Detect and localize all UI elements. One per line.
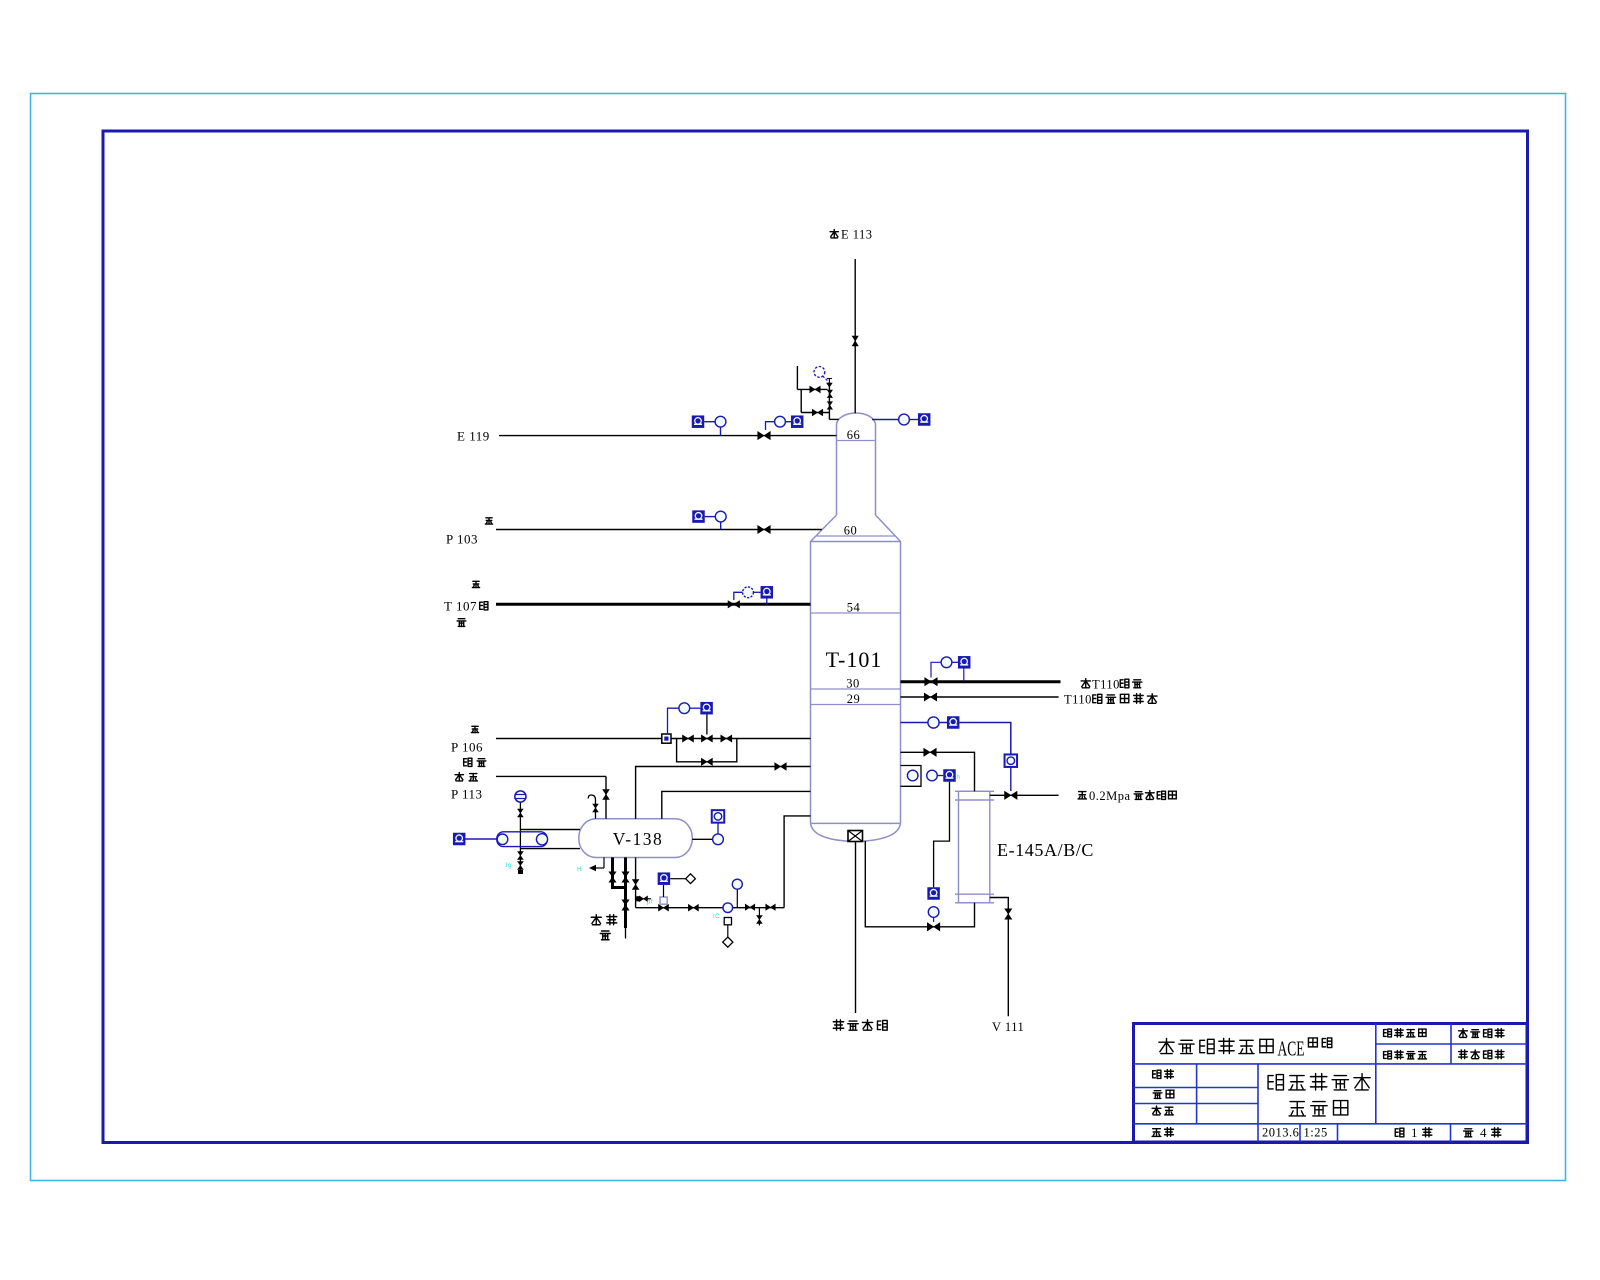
valve small on right leg 2 [827, 402, 832, 410]
column tray line 30 [811, 688, 901, 690]
valve bottom outlet left [609, 872, 616, 883]
svg-text:1:25: 1:25 [1304, 1126, 1328, 1140]
instrument display square top right [918, 413, 931, 426]
label T110 2 [1064, 693, 1092, 707]
svg-text:V 111: V 111 [992, 1020, 1024, 1034]
pipe V-138 bottom outlet left (thick) [611, 857, 614, 887]
column tray line 29 [811, 704, 901, 706]
signal stem V-138 circle up [717, 823, 719, 834]
label hanzi zhi (to) [485, 518, 492, 524]
svg-text:V-138: V-138 [613, 829, 664, 849]
cell hanzi gong (total) [1464, 1129, 1473, 1137]
exchanger E-145A/B/C shell [955, 791, 994, 903]
pipe reflux left leg [800, 389, 802, 412]
control valve on reflux right leg [826, 379, 833, 388]
label hanzi fang-zhi (drain to) [455, 773, 477, 781]
valve manifold stub [640, 896, 648, 902]
valve manifold 3 [745, 904, 755, 910]
svg-text:T 107: T 107 [444, 599, 477, 614]
pipe P-106 bypass [677, 739, 737, 762]
stub cap [636, 896, 640, 901]
tray label 29 [847, 692, 861, 706]
flow element FE on P-106 line [662, 734, 671, 743]
V-138 bottom-left drain arrow [589, 857, 604, 871]
cell hanzi she-ji (designer) [1153, 1070, 1174, 1079]
cell text sheet 4 [1480, 1125, 1487, 1140]
level pot circle 1 [497, 834, 508, 845]
instrument display square E-119 [692, 415, 705, 428]
column tray line 54 [811, 612, 901, 614]
svg-text:ACE: ACE [1278, 1037, 1305, 1061]
instrument FIC display square P-106 [700, 702, 713, 715]
cell text 2013.6 [1262, 1126, 1299, 1140]
instrument LIC display square [927, 887, 940, 900]
valve manifold 2 [688, 904, 698, 911]
label P 103 [446, 532, 478, 547]
svg-text:30: 30 [846, 677, 860, 691]
signal LIC chain [934, 782, 950, 887]
valve reflux lower [812, 409, 823, 416]
instrument circle V-138 right [713, 834, 724, 845]
label hanzi zheng-qi-guan-wang [1134, 791, 1176, 800]
vessel V-138 shell [579, 819, 693, 858]
signal link T-107 circle-square [753, 591, 760, 593]
cell hanzi she-ji-xiang-mu [1384, 1029, 1426, 1037]
valve reflux upper [810, 386, 821, 393]
pipe from P-103 [496, 529, 822, 531]
pipe V-138 right to LI circle [692, 838, 712, 840]
instrument circle P-103 [715, 511, 726, 522]
pipe bottom manifold [636, 907, 785, 909]
svg-text:h: h [957, 775, 961, 781]
goose-neck vent on V-138 top [588, 795, 595, 819]
tray label 54 [847, 601, 861, 615]
interlock diamond 1 [686, 874, 696, 884]
svg-text:4: 4 [1480, 1125, 1487, 1140]
column tray line 66 [837, 440, 876, 442]
signal stem circle-square-diamond [727, 925, 729, 937]
instrument display square T-107 [761, 586, 774, 599]
pipe to P-113 [496, 775, 606, 777]
pipe from T-107 reboiler (thick) [496, 603, 811, 606]
valve on centre drop [632, 880, 639, 890]
pipe E-119 feed [499, 435, 837, 437]
interlock diamond 2 [723, 937, 733, 947]
valve on goose-neck [593, 804, 599, 812]
instrument circle LIC [928, 907, 939, 918]
valve manifold drain [757, 916, 763, 924]
pipe column bottoms [865, 841, 974, 927]
pipe reflux lower run [801, 412, 829, 414]
svg-text:lg: lg [506, 862, 512, 869]
cell hanzi zhang 2 [1492, 1128, 1501, 1137]
instrument display square PT [947, 716, 960, 729]
svg-text:pf: pf [647, 900, 653, 906]
title block grid lines [1134, 1024, 1528, 1143]
title text ACE [1278, 1037, 1305, 1061]
cell hanzi chu-bu-she-ji [1459, 1050, 1504, 1059]
svg-text:T110: T110 [1092, 678, 1120, 692]
cyan mark pf [647, 900, 653, 906]
label V 111 [992, 1020, 1024, 1034]
label hanzi zhi steam [1078, 792, 1086, 799]
square below manifold circle [724, 918, 731, 925]
column T-101 shell [811, 413, 901, 842]
signal elbow E-119 controller to valve [766, 422, 775, 430]
valve on reboiler feed [924, 748, 937, 756]
instrument square V-138 right [712, 810, 725, 823]
valve on reflux return [924, 693, 937, 701]
label T110 [1092, 678, 1120, 692]
signal link E-119 sq-circle [704, 421, 715, 423]
signal link T-110 circle-square [952, 661, 958, 663]
svg-text:T110: T110 [1064, 693, 1092, 707]
stem P-106 control valve [706, 715, 708, 735]
svg-text:P 106: P 106 [451, 740, 483, 755]
pipe residue tail [625, 928, 627, 939]
valve manifold control [659, 904, 669, 911]
signal link FI circle-FIC square [690, 707, 701, 709]
instrument circle FI P-106 [679, 703, 690, 714]
signal line to PIC [959, 723, 1010, 755]
tray label 30 [846, 677, 860, 691]
signal link PT circle-square [939, 722, 947, 724]
label hanzi fang-can (residue) [591, 915, 617, 925]
tray label 66 [847, 428, 861, 442]
pipe reflux right leg [828, 382, 830, 419]
instrument circle PT [928, 717, 939, 728]
signal stem T-107 square to pipe [766, 599, 768, 605]
cell hanzi zhi-tu (drawn) [1153, 1090, 1174, 1098]
valve on T-107 line [728, 601, 740, 608]
pipe from P-106 [496, 738, 811, 740]
label hanzi ce-duan (side section) [464, 758, 486, 766]
cyan mark level [957, 775, 961, 781]
pipe V-138 second top line to column [662, 791, 811, 818]
svg-text:66: 66 [847, 428, 861, 442]
column tray line 60 [816, 535, 897, 537]
pipe manifold drain stub [758, 908, 760, 926]
instrument PIC square [1005, 754, 1018, 767]
signal stem PIC to valve [1010, 767, 1012, 791]
svg-text:54: 54 [847, 601, 861, 615]
cell hanzi zhang (sheet) [1423, 1128, 1432, 1137]
valve manifold 4 [766, 904, 776, 910]
pressure controller PC circle (dashed) [814, 367, 829, 382]
pipe P-113 drop to V-138 [605, 776, 607, 818]
signal pipe PT tap [901, 722, 929, 724]
label P 113 [451, 787, 483, 802]
tray label 60 [844, 524, 858, 538]
pipe bottom outlet elbow (thick) [611, 886, 626, 889]
cyan mark IC [713, 914, 720, 920]
cell text 1:25 [1304, 1126, 1328, 1140]
valve on P-113 drop [603, 790, 610, 800]
valve bottom outlet right [622, 872, 629, 883]
signal link P-103 sq-circle [705, 516, 716, 518]
svg-text:IC: IC [713, 914, 720, 920]
instrument circle E-119 controller [775, 416, 786, 427]
signal stem T-110 square [963, 669, 965, 682]
svg-text:E 119: E 119 [457, 429, 490, 444]
level gauge top instrument [515, 791, 526, 802]
valve P-106 bypass [701, 758, 712, 765]
title hanzi da-qing-shi-fan-xue-yuan [1159, 1038, 1273, 1053]
title block outer frame [1134, 1024, 1528, 1143]
pipe steam line [990, 794, 1059, 796]
pipe T-110 kettle reflux return [901, 696, 1059, 698]
svg-text:60: 60 [844, 524, 858, 538]
signal stem E-119 circle to pipe [720, 427, 722, 436]
cell hanzi di (no.) [1395, 1128, 1404, 1137]
level bridle vertical [519, 791, 521, 873]
svg-text:E 113: E 113 [841, 228, 873, 242]
valve on T-110 line [925, 678, 938, 686]
level pot circle 2 [536, 834, 547, 845]
signal FI circle to FE [668, 708, 679, 734]
svg-text:1: 1 [1411, 1125, 1418, 1140]
cell hanzi jiao-dui (checked) [1152, 1106, 1173, 1115]
instrument circle PI top [899, 414, 910, 425]
column label T-101 [826, 647, 883, 672]
label hanzi san-xiao-zheng-fa [833, 1020, 887, 1030]
instrument display square P-103 [692, 510, 705, 522]
pipe manifold stub left [636, 898, 651, 900]
signal link level circle-square [937, 775, 943, 777]
cyan mark H [577, 866, 582, 873]
pipe V-138 centre bottom drop [635, 857, 637, 907]
cell hanzi shen-he (approved) [1152, 1128, 1173, 1137]
control valve on steam line [1005, 791, 1018, 799]
svg-text:T-101: T-101 [826, 647, 883, 672]
instrument display square T-110 [958, 656, 971, 669]
level tap bracket [901, 766, 922, 787]
level tap upper [520, 829, 580, 831]
instrument display square LT [453, 833, 466, 846]
label hanzi fu (kettle) [457, 619, 466, 627]
column bottom nozzle box with X [848, 831, 863, 842]
instrument circle E-119 [715, 416, 726, 427]
cell text sheet 1 [1411, 1125, 1418, 1140]
instrument circle PI manifold [732, 879, 742, 889]
signal riser T-110 valve [931, 662, 941, 677]
bridle drain cap [518, 870, 523, 874]
label hanzi ta (tower) [480, 602, 488, 610]
svg-text:P 113: P 113 [451, 787, 483, 802]
instrument display square level [943, 769, 956, 782]
valve bridle lower [518, 852, 524, 860]
label 0.2Mpa [1089, 789, 1131, 803]
title hanzi tuan-dui [1308, 1038, 1331, 1048]
signal stem positioner [663, 885, 665, 897]
instrument display square manifold [658, 872, 671, 885]
label E 113 [841, 228, 873, 242]
valve on P-103 line [758, 526, 771, 534]
label E 119 [457, 429, 490, 444]
valve P-106 block 1 [683, 735, 694, 742]
pipe to T-110 tower section (thick) [901, 680, 1061, 683]
svg-text:29: 29 [847, 692, 861, 706]
control valve positioner square (lavender) [660, 897, 667, 904]
label hanzi qu (go to E-113) [830, 230, 838, 238]
svg-text:0.2Mpa: 0.2Mpa [1089, 789, 1131, 803]
valve on overhead line [852, 336, 858, 346]
instrument display square E-119 second [791, 415, 804, 428]
valve on V-111 line [1005, 909, 1012, 920]
instrument circle T-107 (dashed) [743, 587, 754, 598]
label hanzi qu T110 [1081, 679, 1090, 688]
drawing title hanzi zhi-dian-tu [1289, 1101, 1348, 1116]
signal link manifold square-diamond [670, 878, 686, 880]
instrument circle level 1 [907, 770, 918, 781]
signal stem LIC circle to valve [933, 917, 935, 922]
control valve on bottoms line [927, 923, 940, 931]
pipe reflux tail to dome [829, 418, 838, 420]
pipe reflux stub up [796, 366, 798, 389]
pipe reflux upper run [797, 388, 827, 390]
exchanger label E-145A/B/C [997, 840, 1094, 860]
pipe column bottom to evaporator [855, 842, 857, 1014]
signal link LT square [465, 838, 497, 840]
instrument circle on manifold [723, 903, 733, 913]
signal stem P-103 circle to pipe [720, 522, 722, 530]
vessel label V-138 [613, 829, 664, 849]
drawing title hanzi jing-zhi-gong-duan-kong [1268, 1074, 1370, 1090]
instrument circle T-110 [941, 657, 952, 668]
valve P-106 block 2 [721, 735, 732, 742]
label hanzi ye (liquid) [600, 931, 610, 940]
cell hanzi can-sai-she-ji [1459, 1029, 1504, 1038]
pipe overhead vapour to E-113 [854, 259, 856, 413]
svg-text:2013.6: 2013.6 [1262, 1126, 1299, 1140]
label hanzi ta-fu-hui-liu-ye [1093, 694, 1157, 704]
pipe column to E-145 top [901, 752, 975, 791]
label hanzi zhi 2 [472, 581, 479, 587]
svg-text:P 103: P 103 [446, 532, 478, 547]
signal riser T-107 valve to circle [734, 592, 743, 600]
signal link E-119 circle-square2 [785, 421, 791, 423]
level tap lower [520, 848, 580, 850]
valve bottom outlet right 2 [622, 900, 629, 911]
instrument circle level 2 [927, 770, 938, 781]
pipe V-138 vapour to column [636, 767, 811, 819]
signal riser manifold PI [736, 889, 738, 908]
label T 107 [444, 599, 477, 614]
pipe E-145 condensate to V-111 [990, 898, 1009, 1017]
valve small on right leg 1 [827, 390, 832, 398]
label P 106 [451, 740, 483, 755]
cell hanzi she-ji-jie-duan [1384, 1051, 1427, 1059]
pipe V-138 bottom outlet right (thick) [624, 857, 627, 928]
valve bridle upper [518, 809, 524, 817]
signal link PI to display [909, 419, 918, 421]
valve on vapour line [775, 763, 787, 771]
svg-text:E-145A/B/C: E-145A/B/C [997, 840, 1094, 860]
level pot chamber [497, 832, 548, 847]
cyan mark lg [506, 862, 512, 869]
valve P-106 control [701, 735, 712, 742]
signal line dome to PI [872, 419, 899, 421]
pipe manifold riser to column [784, 816, 810, 908]
valve bridle drain [518, 862, 524, 870]
label hanzi zhi 3 [471, 726, 478, 732]
inner navy drawing border [103, 131, 1528, 1143]
label hanzi ta-duan [1120, 679, 1142, 688]
valve E-119 control [758, 432, 771, 440]
svg-text:H: H [577, 866, 582, 873]
